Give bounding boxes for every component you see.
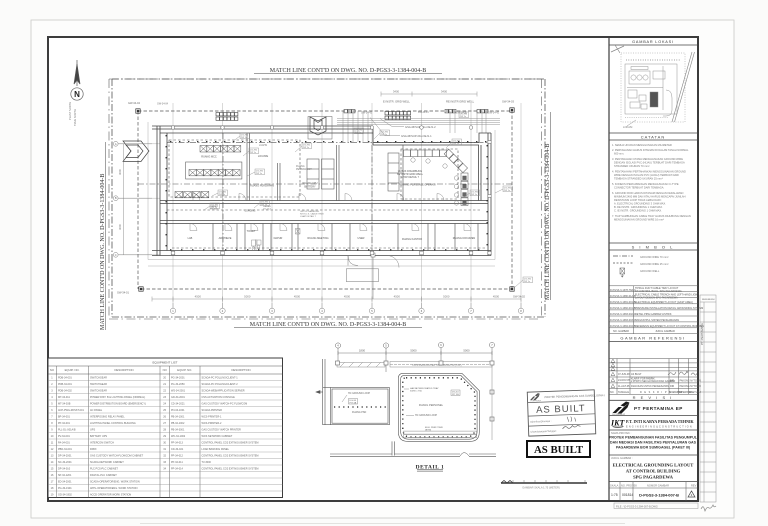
svg-text:DESCRIPTION: DESCRIPTION: [231, 368, 250, 372]
svg-text:PB-34-3001: PB-34-3001: [171, 428, 185, 431]
svg-text:NO.: NO.: [610, 391, 615, 394]
equipment table: [48, 358, 283, 498]
svg-text:P.T. INTI KARYA PERSADA TEHNIK: P.T. INTI KARYA PERSADA TEHNIK: [626, 419, 695, 424]
svg-text:2. PERTAHANAN HARUS DITANAM D: 2. PERTAHANAN HARUS DITANAM DI DALAM TAN…: [612, 148, 689, 152]
svg-text:SWITCHGEAR: SWITCHGEAR: [90, 383, 107, 386]
svg-text:SCADA-OPERATOR/ENG. WORK STATI: SCADA-OPERATOR/ENG. WORK STATION: [90, 480, 140, 483]
svg-text:3. PENTANAHAN UTAMA MENGGUNAK: 3. PENTANAHAN UTAMA MENGGUNAKAN GROUND W…: [612, 157, 683, 161]
svg-text:PW 7a: PW 7a: [355, 132, 362, 134]
svg-text:AT CONTROL BUILDING: AT CONTROL BUILDING: [626, 469, 681, 474]
svg-text:PP-34-013: PP-34-013: [171, 441, 184, 444]
svg-text:CONTROL PANEL CO2 EXTINGUISHER: CONTROL PANEL CO2 EXTINGUISHER SYSTEM: [202, 467, 259, 470]
right room walls: [398, 373, 479, 441]
svg-text:JUDUL GAMBAR :: JUDUL GAMBAR :: [611, 456, 633, 460]
svg-text:D-PGS3-3-1384-004-B: D-PGS3-3-1384-004-B: [610, 325, 636, 328]
svg-text:C. IE INSTR. GROUNDING 1 OHM M: C. IE INSTR. GROUNDING 1 OHM MAX.: [614, 209, 662, 213]
dimension band bottom: [152, 298, 521, 300]
svg-text:4. PENTANAHAN PERTAHANKAN MEN: 4. PENTANAHAN PERTAHANKAN MENGGUNAKAN GR…: [612, 170, 686, 174]
right grid line down: [491, 366, 493, 440]
svg-text:PLC PCS-PLC CABINET: PLC PCS-PLC CABINET: [90, 467, 118, 470]
svg-text:SPG PAGARDEWA: SPG PAGARDEWA: [633, 475, 674, 480]
bottom tray band: [404, 431, 477, 437]
svg-text:AC PANEL: AC PANEL: [90, 409, 103, 412]
svg-text:UNTUK SAMBUNG: UNTUK SAMBUNG: [300, 210, 320, 213]
scale bar: [501, 480, 587, 490]
svg-text:C: C: [115, 253, 117, 257]
svg-text:POWER DIST. B & LIGHTING PANEL: POWER DIST. B & LIGHTING PANEL (NORMAL): [90, 396, 145, 399]
svg-text:DAPUR: DAPUR: [274, 237, 283, 240]
svg-text:LIHAT DETAIL 7: LIHAT DETAIL 7: [401, 176, 420, 179]
svg-text:GD-34-1902: GD-34-1902: [58, 493, 72, 496]
svg-text:1:75: 1:75: [611, 493, 618, 497]
location map: [611, 45, 695, 122]
extra labels: [157, 103, 312, 172]
svg-text:RUANG MEETING: RUANG MEETING: [307, 237, 328, 240]
svg-text:PAKONG NYTOWO: PAKONG NYTOWO: [680, 385, 702, 388]
svg-text:GW-34-04: GW-34-04: [128, 101, 140, 105]
svg-text:DP-34-010: DP-34-010: [58, 467, 71, 470]
svg-text:7. TIAP SAMBUNGAN CABLE TRAY: 7. TIAP SAMBUNGAN CABLE TRAY HARUS DIHUB…: [612, 214, 691, 218]
svg-text:3000: 3000: [118, 224, 122, 230]
svg-text:GAS CUSTODY WATCH PRINTER: GAS CUSTODY WATCH PRINTER: [202, 428, 242, 431]
lobby door arc: [387, 256, 399, 268]
svg-text:NOMOR GAMBAR: NOMOR GAMBAR: [647, 484, 669, 488]
top tray band: [337, 362, 492, 368]
sidebar divider: [608, 37, 610, 501]
svg-text:DAN MEDIASI DAN FASILITAS PENY: DAN MEDIASI DAN FASILITAS PENYALURAN GAS: [610, 441, 697, 445]
svg-text:3400: 3400: [441, 90, 448, 94]
left grid bubbles: [113, 141, 152, 257]
toilet fixtures: [252, 229, 301, 251]
svg-text:4500: 4500: [344, 295, 351, 299]
svg-text:SCADA-PC POLLING/CLIENT-2: SCADA-PC POLLING/CLIENT-2: [202, 383, 239, 386]
svg-text:24-NOV-05: 24-NOV-05: [618, 379, 631, 382]
svg-text:E INSTR. GRID WELL: E INSTR. GRID WELL: [383, 100, 410, 104]
notes: [612, 143, 691, 222]
svg-text:MT-34-011: MT-34-011: [58, 396, 71, 399]
svg-text:PW 7a: PW 7a: [504, 190, 511, 192]
svg-text:DIGITAL-PLC CABINET: DIGITAL-PLC CABINET: [90, 474, 117, 477]
svg-text:PERTAMINA: PERTAMINA: [531, 399, 542, 402]
misc darah labels under corridor: [210, 205, 324, 218]
apron lines: [148, 122, 495, 266]
svg-text:RUANG PERSIAPAN: RUANG PERSIAPAN: [250, 185, 274, 188]
scattered label boxes: [210, 112, 533, 283]
svg-text:MT-34-03B: MT-34-03B: [58, 402, 71, 405]
svg-text:HC GROUND LOOP: HC GROUND LOOP: [348, 392, 370, 395]
svg-text:DIR: DIR: [670, 385, 674, 388]
mcc panels row1: [200, 146, 241, 153]
console desks arc: [404, 149, 469, 205]
svg-text:WCS-PRINTER-2: WCS-PRINTER-2: [202, 422, 222, 425]
svg-text:4500: 4500: [394, 295, 401, 299]
svg-text:PW 7a: PW 7a: [471, 194, 478, 196]
dots along walls (ground connections): [166, 135, 488, 251]
grid lines horizontal: [119, 144, 160, 255]
svg-text:RESISTANSI LOOP TIDAK LEBIH DA: RESISTANSI LOOP TIDAK LEBIH DARI :: [614, 198, 662, 202]
svg-text:PW 7a: PW 7a: [460, 116, 467, 118]
svg-text:ELEL PERF TRAY: ELEL PERF TRAY: [425, 426, 443, 429]
internal dashed loop left rooms: [167, 140, 486, 248]
svg-text:PB-34-1002: PB-34-1002: [171, 422, 185, 425]
scale row: [609, 482, 698, 501]
ground wells corners: [136, 108, 514, 291]
corridor walls: [160, 201, 488, 224]
match line boundary dash-dot: [112, 79, 545, 317]
svg-text:LOAD BANKING PANEL: LOAD BANKING PANEL: [202, 448, 230, 451]
svg-text:PLL-DL-001A/B: PLL-DL-001A/B: [58, 428, 76, 431]
svg-text:DG-320: DG-320: [210, 209, 218, 211]
svg-text:CONTROL PANEL CO2 EXTINGUISHER: CONTROL PANEL CO2 EXTINGUISHER SYSTEM: [202, 441, 259, 444]
svg-text:XXPB PERFORATED TRAY 300Wx75D: XXPB PERFORATED TRAY 300Wx75D (TOP): [412, 364, 462, 367]
middle wall: [278, 145, 404, 201]
svg-text:5. KONEKSI PERCABANGAN MENGGU: 5. KONEKSI PERCABANGAN MENGGUNAKAN C-TYP…: [612, 182, 679, 186]
right strip: [700, 295, 716, 502]
svg-text:EQUIP. NO.: EQUIP. NO.: [177, 368, 192, 372]
svg-text:TV-3000: TV-3000: [202, 461, 212, 464]
acc room and panels: [186, 162, 242, 179]
svg-text:DP-34-2001: DP-34-2001: [58, 454, 72, 457]
svg-text:TRUE NORTH: TRUE NORTH: [73, 109, 77, 126]
svg-text:WC-34-1002: WC-34-1002: [171, 435, 186, 438]
leader squiggles: [204, 133, 523, 287]
svg-text:CONTROL PANEL CO2 EXTINGUISHER: CONTROL PANEL CO2 EXTINGUISHER SYSTEM: [202, 454, 259, 457]
well chains on top bus: [216, 110, 488, 121]
svg-text:4500: 4500: [294, 295, 301, 299]
detail grid bubbles: [335, 342, 494, 372]
svg-text:GW-34-01: GW-34-01: [117, 291, 129, 295]
svg-text:SINGKATPUL SISTEM PENGAMANAN: SINGKATPUL SISTEM PENGAMANAN: [635, 319, 679, 322]
svg-text:EQUIP. NO.: EQUIP. NO.: [65, 368, 80, 372]
svg-text:SCADA-WEB/APPLICATION SERVER: SCADA-WEB/APPLICATION SERVER: [202, 389, 245, 392]
svg-text:SCADA-PRINTER: SCADA-PRINTER: [202, 409, 223, 412]
door arcs corridor: [190, 194, 471, 231]
ups cabinets: [307, 153, 399, 191]
svg-text:NC-34-2001: NC-34-2001: [58, 461, 72, 464]
svg-text:DARAH: DARAH: [263, 205, 271, 208]
svg-text:PW 7a: PW 7a: [524, 281, 531, 283]
svg-text:PA-34-001: PA-34-001: [58, 441, 70, 444]
svg-text:DESCRIPTION: DESCRIPTION: [114, 368, 133, 372]
scan shadow bottom: [140, 523, 625, 525]
svg-text:GAS CUSTODY WATCH-FLOWCOM CABI: GAS CUSTODY WATCH-FLOWCOM CABINET: [90, 454, 144, 457]
svg-text:001814: 001814: [622, 493, 633, 497]
svg-text:DETAIL PIPE GAMBAR LISTRIK: DETAIL PIPE GAMBAR LISTRIK: [635, 313, 672, 316]
grid bubbles bottom: [170, 303, 523, 313]
svg-text:5000: 5000: [463, 349, 470, 353]
file bar: [614, 503, 698, 509]
right room ground loop dots: [403, 378, 475, 437]
svg-text:1800: 1800: [359, 349, 366, 353]
detail dimension line: [338, 352, 492, 354]
svg-text:PLANT NORTH: PLANT NORTH: [68, 102, 72, 120]
svg-text:WCS-PRINTER-1: WCS-PRINTER-1: [202, 415, 222, 418]
svg-text:LIHAT DETAIL 7: LIHAT DETAIL 7: [300, 215, 317, 218]
svg-text:GW-34-42: GW-34-42: [488, 112, 500, 115]
svg-text:PG-34-1901: PG-34-1901: [58, 487, 72, 490]
svg-text:GROUND WIRE 70 mm²: GROUND WIRE 70 mm²: [640, 255, 669, 259]
svg-text:TANGGAL: TANGGAL: [618, 391, 630, 394]
svg-text:PP-34-011: PP-34-011: [171, 461, 183, 464]
svg-text:MENGGUNAKAN GROUND WIRE 16 mm²: MENGGUNAKAN GROUND WIRE 16 mm²: [614, 218, 664, 222]
svg-text:PV-34-001: PV-34-001: [58, 435, 70, 438]
svg-text:PT PERTAMINA: PT PERTAMINA: [700, 323, 704, 345]
svg-text:PDB-34-001: PDB-34-001: [58, 376, 72, 379]
svg-text:ARCHIEVE: ARCHIEVE: [219, 237, 232, 240]
detail bottom walls: [330, 441, 496, 456]
handwritten mark: [701, 505, 716, 511]
svg-text:PABX: PABX: [90, 448, 97, 451]
as built bold stamp: [527, 441, 590, 457]
svg-text:5000: 5000: [410, 349, 417, 353]
svg-text:KE E.D.S. CABLE TRAY: KE E.D.S. CABLE TRAY: [300, 213, 324, 216]
svg-text:RE INSTR GRID WELL: RE INSTR GRID WELL: [446, 100, 475, 104]
svg-text:RUANG DOKUMEN: RUANG DOKUMEN: [453, 237, 476, 240]
column markers: [336, 361, 495, 421]
match boundary dash-dot: [109, 79, 542, 319]
svg-text:ED-34-2001: ED-34-2001: [58, 480, 72, 483]
svg-text:D-PGS3-3-1383-002-C: D-PGS3-3-1383-002-C: [610, 313, 636, 316]
callout leaders top: [370, 118, 404, 136]
svg-text:LOUVRE: LOUVRE: [258, 155, 269, 158]
svg-text:GSA-RFSUP-DG-OE-N-1: GSA-RFSUP-DG-OE-N-1: [401, 134, 432, 138]
svg-text:GW-34-03: GW-34-03: [502, 100, 514, 104]
chairs: [411, 158, 459, 205]
svg-text:PW 7a: PW 7a: [219, 194, 226, 196]
svg-text:WS-34-2001: WS-34-2001: [171, 389, 186, 392]
svg-text:SKALA: SKALA: [610, 484, 619, 488]
left room walls: [316, 359, 389, 425]
svg-text:3000: 3000: [118, 169, 122, 175]
left room ground loop dots: [334, 406, 387, 408]
ikpt logo row: [610, 419, 695, 429]
svg-text:ACP-PWG-RFSST-001: ACP-PWG-RFSST-001: [58, 409, 84, 412]
svg-text:SWITCHGEAR: SWITCHGEAR: [90, 389, 107, 392]
svg-text:GROUND WELL: GROUND WELL: [640, 269, 660, 273]
svg-text:PDB-34-001: PDB-34-001: [58, 383, 72, 386]
svg-text:DIR: DIR: [670, 380, 674, 383]
svg-text:PIT 3A: PIT 3A: [350, 402, 357, 405]
svg-text:MATCH LINE CONT'D ON DWG. NO.: MATCH LINE CONT'D ON DWG. NO. D-PGS3-3-1…: [250, 322, 406, 328]
internal ground wire dash-dot: [138, 133, 512, 250]
svg-text:INTERCOM SWITCH: INTERCOM SWITCH: [90, 441, 114, 444]
svg-text:UPS: UPS: [90, 428, 95, 431]
svg-text:DIAJUKAN UNTUK PENGESAHAN: DIAJUKAN UNTUK PENGESAHAN: [631, 385, 669, 388]
svg-text:PP-34-001: PP-34-001: [58, 422, 71, 425]
detail 1: [316, 342, 587, 489]
svg-text:PAGARDEWA BOR SUMIGAGEL (PAKET: PAGARDEWA BOR SUMIGAGEL (PAKET III): [616, 446, 691, 450]
svg-text:GAMBAR SKALA 1:75 (METER): GAMBAR SKALA 1:75 (METER): [522, 486, 560, 490]
svg-text:DARAH: DARAH: [210, 205, 218, 208]
svg-text:REFERENSI EQUIPMENT LAYOUT AT: REFERENSI EQUIPMENT LAYOUT AT CONTROL BU…: [635, 325, 704, 328]
svg-text:GW-34-04: GW-34-04: [157, 103, 169, 106]
svg-text:SP-34-1201: SP-34-1201: [58, 474, 72, 477]
svg-text:E N G I N E E R I N G & C: E N G I N E E R I N G & C O N S T R U C …: [626, 426, 692, 429]
building outer walls: [152, 126, 491, 256]
simbol header: [609, 242, 698, 244]
svg-text:MINIMUM 2400 MM DAN ATAU HARUS: MINIMUM 2400 MM DAN ATAU HARUS MENCAPAI …: [614, 195, 686, 199]
svg-text:5000: 5000: [244, 295, 251, 299]
column markers on walls: [171, 126, 491, 255]
svg-text:CD-34-021: CD-34-021: [171, 448, 184, 451]
small panel row: [175, 192, 209, 198]
svg-text:GD-34-2001: GD-34-2001: [171, 396, 185, 399]
svg-text:REFERENSI: REFERENSI: [702, 299, 715, 301]
svg-text:FILE : \D-PGS3-3-1384-007-B: FILE : \D-PGS3-3-1384-007-B.DWG: [616, 505, 658, 509]
svg-text:BW-34-41: BW-34-41: [418, 111, 429, 114]
svg-text:5000: 5000: [443, 295, 450, 299]
perimeter ground loop dashed: [138, 110, 512, 289]
grid lines vertical: [173, 103, 521, 303]
svg-text:DG-01X: DG-01X: [263, 209, 271, 211]
svg-text:N: N: [74, 90, 80, 99]
svg-text:BP-34-001: BP-34-001: [58, 415, 71, 418]
svg-text:PT PERTAMINA EP: PT PERTAMINA EP: [634, 406, 683, 411]
cable runs top right: [337, 111, 500, 142]
svg-text:B: B: [115, 196, 117, 200]
svg-text:1. SEMUA UKURAN MENGGUNAKAN M: 1. SEMUA UKURAN MENGGUNAKAN MILIMETER: [612, 143, 672, 147]
svg-text:4500: 4500: [195, 295, 202, 299]
svg-text:DENGAN ISOLASI PVC (HIJAU) TER: DENGAN ISOLASI PVC (HIJAU) TERBUAT DARI …: [614, 161, 685, 165]
svg-text:D-PGS3-3-1384-007-B: D-PGS3-3-1384-007-B: [639, 493, 679, 498]
svg-text:INTERPOSING RELAY PANEL: INTERPOSING RELAY PANEL: [90, 415, 125, 418]
gambar lokasi header: [609, 44, 698, 46]
svg-text:RUANG KANTOR: RUANG KANTOR: [402, 238, 422, 241]
svg-text:DISETUJUI: DISETUJUI: [689, 391, 702, 394]
rev triangles: [611, 359, 615, 387]
svg-text:S I M B O L: S I M B O L: [632, 245, 675, 250]
svg-text:GAMBAR REFERENSI: GAMBAR REFERENSI: [620, 336, 685, 341]
svg-text:BATTERY: BATTERY: [304, 186, 316, 189]
svg-text:RUANG MCC: RUANG MCC: [201, 156, 217, 159]
svg-text:LUAHN: LUAHN: [259, 144, 267, 147]
svg-text:SCADA-NETWORK CABINET: SCADA-NETWORK CABINET: [90, 461, 124, 464]
catatan header: [609, 132, 698, 134]
svg-text:SWITCHGEAR: SWITCHGEAR: [90, 376, 107, 379]
svg-text:NO. GAMBAR: NO. GAMBAR: [613, 330, 629, 333]
svg-text:GROUND WIRE 25 mm²: GROUND WIRE 25 mm²: [640, 262, 669, 266]
svg-text:SCADA-PC POLLING/CLIENT-1: SCADA-PC POLLING/CLIENT-1: [202, 376, 239, 379]
svg-text:PB-34-1001: PB-34-1001: [171, 415, 185, 418]
svg-text:APPL-OPERATOR/ENG. WORK STATIO: APPL-OPERATOR/ENG. WORK STATION: [90, 487, 138, 490]
svg-text:D-PGS3-3-1382-001-B: D-PGS3-3-1382-001-B: [610, 307, 636, 310]
svg-text:PW 7a: PW 7a: [303, 147, 310, 149]
svg-text:A: A: [115, 142, 117, 146]
svg-text:D-PGS3-3-1381-001-B: D-PGS3-3-1381-001-B: [610, 301, 636, 304]
svg-text:11-AGT-05: 11-AGT-05: [618, 385, 630, 388]
svg-text:PW 7a: PW 7a: [250, 152, 257, 154]
svg-text:D-PGS3-3-1383-003-C: D-PGS3-3-1383-003-C: [610, 319, 636, 322]
svg-text:A. ELECTRICAL GROUNDING 3 OHM: A. ELECTRICAL GROUNDING 3 OHM MAX.: [614, 202, 666, 206]
drawing frame: [48, 37, 698, 501]
svg-text:PRESSURE INSTALLATION DETAIL G: PRESSURE INSTALLATION DETAIL GROUNDING S…: [635, 307, 703, 310]
svg-text:PG-34-2001: PG-34-2001: [171, 376, 185, 379]
entrance porch bottom: [346, 253, 378, 299]
svg-text:MATCH LINE CONT'D ON DWG. NO.: MATCH LINE CONT'D ON DWG. NO. D-PGS3-3-1…: [100, 174, 106, 330]
svg-text:BATTERY UPS: BATTERY UPS: [90, 435, 107, 438]
svg-text:POWER DISTRIBUTION BOARD (EMER: POWER DISTRIBUTION BOARD (EMERGENCY): [90, 402, 146, 405]
svg-text:GW-34-02: GW-34-02: [513, 295, 525, 299]
svg-text:MATCH LINE CONT'D ON DWG. NO.: MATCH LINE CONT'D ON DWG. NO. D-PGS3-3-1…: [270, 68, 426, 74]
svg-text:PEMBANGKIT: PEMBANGKIT: [296, 168, 312, 171]
stamps: [527, 389, 606, 457]
svg-text:LIGHTING PANEL CONTROL BUILDIN: LIGHTING PANEL CONTROL BUILDING: [90, 422, 136, 425]
pertamina logo: [612, 402, 683, 417]
svg-text:HC GROUND LOOP: HC GROUND LOOP: [415, 414, 437, 417]
svg-text:6. GROUND ROD HARUS DITANAM D: 6. GROUND ROD HARUS DITANAM DENGAN KEDAL…: [612, 191, 684, 195]
svg-text:2 PHOTO SEC/LAYANAN DAN GAMBAR: 2 PHOTO SEC/LAYANAN DAN GAMBAR: [631, 380, 676, 383]
big arrows louvre: [123, 117, 332, 162]
svg-text:LAB: LAB: [188, 237, 193, 240]
svg-text:PAKONG NYTOWO: PAKONG NYTOWO: [680, 380, 702, 383]
svg-text:ELECTRICAL GROUNDING LAYOUT: ELECTRICAL GROUNDING LAYOUT: [613, 463, 694, 468]
svg-text:ELECTRICAL EQUIPMENT LAYOUT (G: ELECTRICAL EQUIPMENT LAYOUT (GAST AREA): [635, 301, 693, 304]
svg-text:PW 7a: PW 7a: [241, 137, 248, 139]
svg-text:PBD-34-001: PBD-34-001: [58, 448, 72, 451]
svg-text:CONNECTOR TERBUAT DARI TEMBAGA: CONNECTOR TERBUAT DARI TEMBAGA.: [614, 186, 664, 190]
svg-text:REV: REV: [691, 484, 697, 488]
svg-text:300W x 75D: 300W x 75D: [410, 391, 422, 393]
rev signature scribbles: [668, 371, 697, 375]
svg-text:WCS NETWORK CABINET: WCS NETWORK CABINET: [202, 435, 233, 438]
svg-text:WIRE DENGAN ISOLASI PVC (HIJAU: WIRE DENGAN ISOLASI PVC (HIJAU) TERBUAT …: [614, 173, 679, 177]
svg-text:B. DE INSTR. GROUNDING 1 OHM M: B. DE INSTR. GROUNDING 1 OHM MAX.: [614, 205, 663, 209]
room divider walls bottom band: [213, 224, 478, 251]
svg-text:R E V I S I: R E V I S I: [633, 395, 674, 400]
revision rows: [609, 359, 698, 395]
svg-text:NO. PROYEK: NO. PROYEK: [621, 484, 637, 488]
svg-text:TEMBAGA STRANDED UKURAN 25 mm²: TEMBAGA STRANDED UKURAN 25 mm²: [614, 177, 663, 181]
svg-text:600 mm.: 600 mm.: [614, 152, 624, 156]
svg-text:PIT 3B: PIT 3B: [452, 394, 459, 396]
sidebar: [140, 40, 716, 524]
svg-text:D-PGS3-3-1380-01A-B: D-PGS3-3-1380-01A-B: [610, 295, 636, 298]
svg-text:GAMBAR LOKASI: GAMBAR LOKASI: [632, 40, 674, 44]
svg-text:JUDUL GAMBAR: JUDUL GAMBAR: [655, 330, 675, 333]
svg-text:GW-34-42: GW-34-42: [361, 112, 373, 115]
svg-text:PW 7a: PW 7a: [256, 173, 263, 175]
svg-text:ACCD OPERATOR WORK STATION: ACCD OPERATOR WORK STATION: [90, 493, 131, 496]
svg-text:PW 7a: PW 7a: [381, 134, 388, 136]
svg-text:PW 7a: PW 7a: [453, 143, 460, 145]
svg-text:TOILET: TOILET: [247, 230, 256, 233]
svg-text:PP-34-012: PP-34-012: [171, 454, 184, 457]
svg-text:4500: 4500: [493, 295, 500, 299]
wall x247: [247, 133, 250, 201]
svg-text:CSS ACTIVATION CONSOLE: CSS ACTIVATION CONSOLE: [202, 396, 236, 399]
svg-text:AS BUILT: AS BUILT: [631, 373, 642, 376]
svg-text:AS BUILT: AS BUILT: [534, 444, 584, 456]
svg-text:PROYEK PEMBANGUNAN FASILITAS P: PROYEK PEMBANGUNAN FASILITAS PENGUMPUL: [609, 436, 698, 440]
svg-text:3400: 3400: [393, 90, 400, 94]
top dimension 3400: [381, 92, 477, 97]
as built stamp handstamp: [527, 389, 606, 436]
svg-text:STRANDED UKURAN 70 mm²: STRANDED UKURAN 70 mm²: [614, 164, 650, 168]
svg-text:CD-34-2021: CD-34-2021: [171, 402, 185, 405]
symbol rows: [613, 255, 669, 277]
svg-text:D-PGS3-3-1378-78A-C: D-PGS3-3-1378-78A-C: [610, 289, 636, 292]
svg-text:MATCH LINE CONT'D ON DWG. NO.: MATCH LINE CONT'D ON DWG. NO. D-PGS3-3-1…: [545, 144, 551, 300]
svg-text:EQUIPMENT LIST: EQUIPMENT LIST: [153, 361, 178, 365]
svg-text:PN-34-1001: PN-34-1001: [171, 409, 185, 412]
svg-text:RUANG PERSONEL: RUANG PERSONEL: [419, 403, 444, 407]
svg-text:07-JUN-08: 07-JUN-08: [618, 373, 630, 376]
svg-text:NAMA PROYEK :: NAMA PROYEK :: [611, 431, 632, 435]
svg-text:PDB-34-002: PDB-34-002: [58, 389, 72, 392]
north arrow: [71, 60, 83, 100]
svg-text:HASTA PERFORATED TRAY: HASTA PERFORATED TRAY: [410, 387, 439, 390]
svg-text:PP-34-014: PP-34-014: [171, 467, 184, 470]
